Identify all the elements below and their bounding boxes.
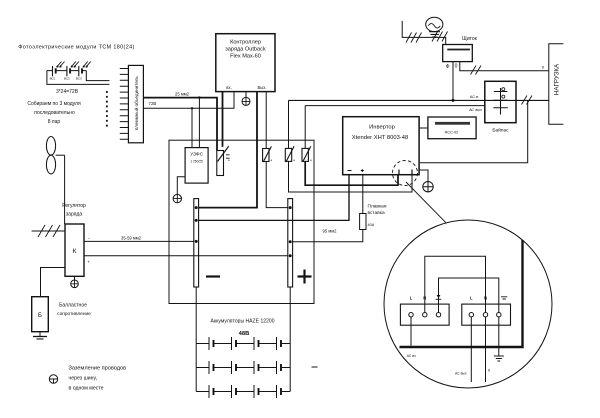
wire AC-in main [289, 99, 549, 101]
svg-text:8 пар: 8 пар [48, 119, 61, 125]
battery room enclosure box [169, 140, 314, 303]
label: minus [206, 275, 220, 277]
breaker QF4 [302, 146, 312, 162]
wire inverter minus [348, 175, 350, 220]
detail view circle [384, 220, 552, 388]
svg-text:Вых.: Вых. [257, 85, 266, 90]
surge protector UZFS 1 250/25 [185, 148, 208, 184]
svg-text:Собираем по 3 модуля: Собираем по 3 модуля [27, 101, 81, 107]
wire QF4 to inverter AC terminal thick [305, 161, 398, 185]
node: repetition dots [106, 91, 108, 127]
terminal combiner box [128, 65, 143, 142]
svg-text:УЗФС: УЗФС [190, 152, 203, 158]
node: phase junction [452, 99, 455, 102]
wire hatch marks load [522, 96, 533, 105]
wire PV plus [86, 71, 109, 81]
svg-text:35-59 мм2: 35-59 мм2 [121, 236, 142, 241]
svg-text:АС вых: АС вых [468, 108, 483, 112]
wire AC-out to bypass [305, 105, 485, 107]
ground: inverter PE [419, 170, 433, 192]
svg-text:последовательно: последовательно [34, 110, 75, 116]
wire PV top [47, 70, 86, 72]
label: plus [298, 270, 312, 284]
charge regulator K [65, 224, 91, 276]
svg-text:−: − [88, 236, 91, 241]
svg-text:Б: Б [38, 313, 42, 319]
inverter U2 Xtender [343, 117, 419, 175]
bus bar positive [288, 199, 293, 287]
wire B2 to right bus [266, 162, 288, 208]
svg-text:АС в: АС в [470, 95, 478, 99]
wire regulator minus 35-59mm2 [84, 240, 194, 242]
svg-text:Flex Max-60: Flex Max-60 [230, 54, 261, 60]
wire link PE to PE [439, 278, 499, 313]
ballast resistor B [32, 297, 49, 332]
svg-text:вх.: вх. [226, 85, 231, 90]
battery string row 3 [196, 385, 290, 398]
svg-text:Аккумуляторы HAZE 12200: Аккумуляторы HAZE 12200 [211, 318, 275, 324]
svg-text:Регулятор: Регулятор [62, 203, 86, 209]
svg-text:заряда Outback: заряда Outback [225, 47, 266, 53]
wire regulator plus to right bus [84, 255, 288, 257]
svg-text:через шину,: через шину, [69, 376, 98, 382]
svg-text:3*24=72В: 3*24=72В [56, 89, 79, 95]
svg-text:40А: 40А [368, 223, 375, 227]
svg-text:L: L [410, 296, 413, 301]
wire PV- to controller input [143, 92, 234, 109]
wire pointer to detail [406, 182, 446, 223]
wire inverter plus to fuse [362, 175, 364, 214]
wire left bus to battery rail [195, 287, 197, 392]
generator AC source [426, 17, 443, 37]
node: bus junction dots [195, 206, 292, 257]
svg-text:Байпас: Байпас [492, 127, 509, 134]
svg-text:Заземление проводов: Заземление проводов [69, 366, 127, 372]
svg-text:+: + [88, 260, 91, 265]
distribution panel box [443, 45, 473, 62]
svg-text:ВС2: ВС2 [64, 77, 70, 81]
wire block2 L down [470, 317, 472, 382]
wire left bus to inverter minus [199, 175, 349, 220]
node: dashed detail ring [393, 161, 418, 186]
wire block1 L down [410, 317, 412, 346]
node: junction dots on PV wires [191, 96, 201, 109]
svg-text:сопротивление: сопротивление [57, 312, 91, 317]
wire PV- to UZFS [191, 108, 193, 147]
breaker QF1 fuse-switch [217, 146, 230, 175]
wire AC-in drop to QF3 [288, 100, 290, 148]
wire PV+ tap to UZFS [198, 98, 200, 148]
fuse FU1 40A [360, 214, 366, 230]
ground: block2 earth bottom [494, 317, 504, 361]
wire hatch marks neutral [471, 66, 482, 75]
wire hatch marks grid left [406, 33, 422, 43]
svg-text:L: L [470, 296, 473, 301]
node: stray dash right of batteries [312, 366, 318, 368]
svg-text:0: 0 [455, 64, 458, 70]
svg-text:вставка: вставка [368, 211, 385, 216]
wire controller input+ [222, 92, 224, 147]
wire turbine phases hatched [32, 225, 65, 237]
svg-text:72В: 72В [149, 101, 157, 106]
svg-text:НАГРУЗКА: НАГРУЗКА [554, 63, 561, 95]
svg-text:К: К [73, 248, 77, 255]
terminal block AC input [400, 304, 449, 325]
svg-text:ВС1: ВС1 [50, 77, 56, 81]
ground: block1 PE glyph [436, 292, 442, 300]
PV cell BC3 [76, 62, 91, 81]
wire block2 N down [485, 317, 487, 382]
ground: regulator earth [71, 276, 79, 287]
ground: ballast earth [33, 332, 47, 339]
svg-text:Контроллер: Контроллер [230, 40, 261, 46]
PV cell BC2 [64, 62, 79, 81]
svg-text:48В: 48В [239, 331, 250, 337]
wind turbine G1 [46, 137, 64, 174]
wire phase from panel [452, 62, 454, 101]
wire hatch marks grid right [432, 32, 448, 42]
combiner input terminals [120, 69, 129, 140]
ground: legend symbol [49, 375, 57, 383]
bus bar negative [194, 199, 199, 287]
ground: controller earth [242, 92, 250, 106]
svg-text:Инвертор: Инвертор [369, 125, 395, 131]
svg-text:25 мм2: 25 мм2 [175, 92, 190, 97]
wire grid feed with stub [402, 21, 446, 45]
battery string row 2 [196, 361, 290, 374]
load bracket [549, 44, 564, 124]
charge controller U1 Outback Flex Max-60 [216, 34, 275, 92]
remote control RCC-02 [428, 117, 476, 139]
wire link N to N [425, 256, 486, 312]
wire regulator to ballast [41, 268, 66, 297]
wire inverter AC side to grid line [419, 100, 528, 162]
svg-text:RCC-02: RCC-02 [445, 131, 459, 135]
terminal block AC output [462, 304, 511, 325]
pin: inverter AC terminals [399, 170, 412, 175]
svg-text:Плавкая: Плавкая [368, 204, 387, 210]
PV cell BC1 [50, 62, 65, 81]
ground: block2 PE glyph [501, 297, 507, 299]
wire AC-out drop to QF4 [304, 106, 306, 149]
battery string row 1 [196, 337, 290, 350]
svg-text:95 мм2: 95 мм2 [323, 229, 338, 234]
wire PV+ 25mm2 to breaker [143, 98, 217, 151]
ground: UZFS earth [173, 177, 185, 203]
svg-text:Фотоэлектрические модули ТСМ 1: Фотоэлектрические модули ТСМ 180(24) [18, 44, 134, 50]
svg-text:заряда: заряда [66, 212, 82, 218]
svg-text:Xtender ХНТ 8003-48: Xtender ХНТ 8003-48 [352, 135, 408, 141]
svg-text:Балластное: Балластное [59, 303, 87, 309]
wire controller out- thick to left bus [199, 92, 257, 208]
wire inverter to RCC [419, 127, 428, 129]
breaker QF2 [263, 146, 273, 162]
wire right bus to battery rail [289, 287, 291, 392]
inverter case edge thick L [400, 240, 523, 347]
bypass switch box [485, 81, 516, 122]
wire turbine to regulator [64, 155, 66, 224]
wire QF3 to inverter AC terminal [289, 161, 413, 192]
wire inverter plus via fuse to right bus [293, 230, 363, 242]
svg-text:ВС3: ВС3 [76, 77, 82, 81]
svg-text:АС вых: АС вых [455, 372, 467, 376]
svg-text:в одном месте: в одном месте [69, 386, 104, 392]
svg-text:Щиток: Щиток [462, 36, 477, 42]
wire PV minus [47, 71, 110, 85]
svg-text:Ф: Ф [446, 64, 450, 70]
svg-text:1 250/25: 1 250/25 [190, 159, 203, 163]
svg-text:АС вх: АС вх [407, 354, 416, 358]
breaker QF3 [285, 146, 295, 162]
svg-text:Клеммный объединитель: Клеммный объединитель [133, 76, 139, 131]
wire controller out+ to breaker B2 [265, 92, 267, 149]
wire neutral from panel [460, 62, 549, 71]
